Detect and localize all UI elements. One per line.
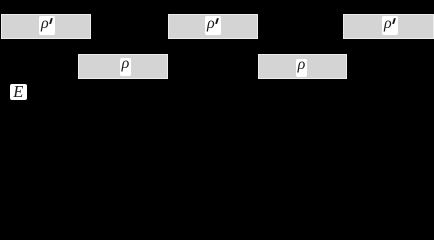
label rho 1 bbox=[120, 58, 131, 76]
label rho' 3 bbox=[382, 16, 398, 35]
box rho 2 (row 2 right) bbox=[258, 54, 347, 79]
label E bbox=[10, 84, 27, 100]
label rho' 1 bbox=[39, 16, 55, 35]
box rho' 2 (row 1 middle) bbox=[168, 14, 258, 39]
box rho 1 (row 2 left) bbox=[78, 54, 168, 79]
label rho 2 bbox=[296, 59, 307, 77]
box rho' 3 (row 1 right) bbox=[343, 14, 434, 39]
box rho' 1 (row 1 left) bbox=[1, 14, 91, 39]
label rho' 2 bbox=[205, 16, 221, 35]
